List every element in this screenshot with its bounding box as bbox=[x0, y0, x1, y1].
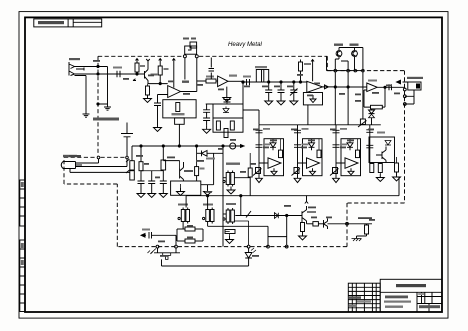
bypass switch SA1 bbox=[183, 38, 198, 82]
wire y=146 taps bbox=[140, 145, 142, 147]
node: battery on boundary bbox=[126, 156, 129, 159]
caps + ground left of box bbox=[203, 104, 211, 133]
battery GB1 bbox=[93, 118, 133, 157]
filter bank top bus bbox=[243, 110, 381, 125]
node: +9V on boundary bbox=[97, 156, 100, 159]
power section wiring bbox=[327, 48, 365, 72]
rail wire to op-amp bbox=[172, 59, 175, 88]
wire: switch net label bbox=[182, 58, 189, 83]
rail 2 to filter bus bbox=[347, 72, 349, 125]
clipping diodes U2.2 bbox=[369, 109, 375, 125]
resistors bottom-left pair bbox=[177, 227, 203, 243]
node op-amp2 output bbox=[242, 81, 244, 83]
+9V bus wire bbox=[132, 145, 241, 147]
feedback path with cap bbox=[224, 82, 244, 104]
emitter resistor + gnd bbox=[299, 219, 307, 240]
resistor to lower bus (right of U4.1) bbox=[234, 153, 252, 196]
LED VD3 bbox=[162, 245, 257, 266]
footswitch SB1 bbox=[148, 245, 181, 259]
level pot RP1 bbox=[255, 66, 269, 82]
analog switch pair U4.4 bbox=[223, 203, 249, 245]
analog switch pair U4.2 bbox=[178, 196, 190, 229]
stage 3 labels bbox=[340, 128, 347, 145]
power rail down right bbox=[362, 72, 364, 119]
node on boundary 2 bbox=[285, 245, 288, 248]
node (335.3,87) bbox=[334, 86, 336, 88]
resistor R8 bbox=[195, 146, 205, 181]
resistor to ground right of stage 4 bbox=[393, 157, 401, 181]
node: boundary crossing bbox=[346, 222, 349, 225]
wire: emitter row bbox=[148, 83, 168, 85]
wire: +9V feed bbox=[76, 159, 99, 163]
node (348.1,87) bbox=[347, 86, 349, 88]
footswitch feed: net arrow + cap bbox=[141, 229, 176, 246]
title block bottom right bbox=[348, 279, 442, 312]
bias resistor R9 bbox=[299, 60, 312, 84]
ground right of box bbox=[201, 185, 214, 196]
ground (input jack) bbox=[83, 111, 90, 117]
op-amp U2.1 bbox=[307, 81, 334, 92]
node: tip junction bbox=[97, 65, 99, 67]
svg-text:Heavy Metal: Heavy Metal bbox=[228, 41, 263, 48]
feedback resistor U2.2 bbox=[364, 87, 385, 109]
op-amp U1.2 bbox=[218, 75, 243, 87]
series cap C7 bbox=[243, 76, 251, 86]
resistor to chassis bbox=[352, 224, 369, 241]
rail arrow + resistor R2 bbox=[158, 59, 168, 84]
wire: tip to pulldown bbox=[98, 67, 108, 105]
analog switch pair U4.3 bbox=[203, 196, 215, 227]
stage network box bbox=[171, 181, 201, 196]
transistor VT1 bbox=[137, 59, 158, 84]
op-amp2 + input ground bbox=[223, 87, 231, 102]
op-amp U2.2 output stage bbox=[364, 80, 405, 92]
stage 2 labels bbox=[302, 128, 309, 145]
ground (pulldown) bbox=[104, 104, 111, 110]
wire to LED node bbox=[208, 226, 268, 246]
reference designator labels bbox=[69, 60, 400, 257]
main row wire bbox=[243, 81, 308, 83]
output coupling bbox=[307, 219, 373, 230]
transistor VT2 bias stage bbox=[163, 161, 193, 181]
tone caps to ground bbox=[265, 81, 298, 105]
mute transistor VT5 bbox=[274, 195, 316, 223]
switch drive line bbox=[235, 196, 302, 218]
analog switch pair U4.1 bbox=[223, 163, 240, 195]
node on LED drive bbox=[286, 214, 288, 216]
filter stage 3 bbox=[330, 125, 361, 183]
node on boundary bbox=[267, 245, 270, 248]
emitter resistor + ground bbox=[144, 84, 152, 103]
power transistor VT8 bbox=[334, 44, 343, 70]
filter stage 2 bbox=[292, 125, 323, 183]
resistor + gnd mid bbox=[225, 230, 235, 244]
top-left stamp block bbox=[34, 19, 102, 27]
clipping box U1.2 network bbox=[206, 104, 243, 138]
diode VD2 on bias line bbox=[197, 146, 223, 247]
feedback box U2.1 bbox=[303, 93, 322, 125]
inner frame bbox=[25, 17, 442, 312]
supply fuse/switch boxes bbox=[126, 146, 134, 180]
stage 1 labels bbox=[263, 128, 270, 145]
op-amp U1.1 bbox=[168, 86, 197, 98]
dashed enclosure box (pedal case) bbox=[64, 56, 405, 246]
series cap on input wire bbox=[117, 71, 120, 77]
trimmer on bias bus bbox=[223, 143, 244, 149]
supply decoupling row (left) bbox=[137, 146, 167, 198]
left margin cells block 1 bbox=[20, 180, 25, 226]
nodes on dashed boundary bbox=[403, 88, 406, 91]
pot RP4 bbox=[358, 119, 367, 127]
net label arrow bbox=[133, 79, 136, 81]
series resistor R5 bbox=[206, 76, 218, 84]
DC power jack X1 bbox=[61, 155, 130, 173]
node (137,74) bbox=[136, 73, 138, 75]
wire: op-amp1 out to stage 2 bbox=[197, 81, 206, 92]
wire: jack sleeve to ground bbox=[85, 76, 87, 112]
node: ring junction bbox=[97, 73, 99, 75]
feedback box U1 network bbox=[163, 100, 196, 146]
node (160.2,83.6) bbox=[159, 83, 161, 85]
bias wire bbox=[311, 60, 314, 82]
wire LED drive bbox=[268, 216, 287, 246]
lower bus bbox=[186, 177, 399, 197]
power transistor VT9 bbox=[350, 44, 359, 70]
cap C2 + ground bbox=[154, 95, 168, 132]
input jack J1 bbox=[69, 58, 137, 76]
shield label bbox=[358, 217, 372, 219]
filter stage 4 (transistor) bbox=[366, 125, 394, 182]
wire from boundary with series cap bbox=[209, 58, 215, 80]
wire: battery to DC jack bbox=[76, 159, 128, 167]
signal wire to output stage bbox=[334, 86, 367, 88]
rail: power to filter bus bbox=[334, 72, 336, 125]
left margin cells block 2 bbox=[20, 240, 25, 312]
pull resistor R1 with rail arrow bbox=[135, 59, 145, 75]
node (98,103) bbox=[97, 103, 99, 105]
output jack J2 bbox=[397, 77, 424, 104]
filter stage 1 bbox=[253, 125, 284, 183]
